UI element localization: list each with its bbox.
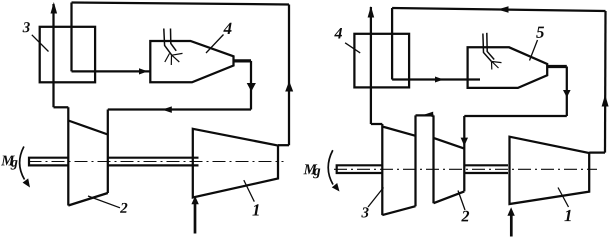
shaft tube left segment xyxy=(29,157,68,167)
label 3 pointer right diagram xyxy=(368,188,384,208)
arrow up on right riser xyxy=(602,95,609,107)
label 4 right diagram xyxy=(334,28,342,39)
wire compressor outlet horizontal right diagram xyxy=(589,151,605,153)
shaft tube right segment xyxy=(108,158,199,166)
arrow down into turbine 2 xyxy=(461,138,468,146)
shaft centerline dash-dot xyxy=(29,161,284,163)
turbine 3 left edge xyxy=(381,124,383,215)
label Mg torque right diagram xyxy=(303,164,317,174)
wire exhaust vertical through heat exchanger xyxy=(52,4,54,107)
compressor 1 body right diagram xyxy=(510,137,590,204)
turbine 3 right edge xyxy=(414,115,416,206)
wire compressor outlet horizontal xyxy=(278,144,289,146)
wire exhaust horizontal from turbine 3 xyxy=(371,123,382,125)
wire duct to combustion chamber 5 xyxy=(392,78,480,80)
turbine 2 left edge right diagram xyxy=(432,115,434,203)
wire top line (compressor outlet to regenerator, left diagram) xyxy=(72,3,290,5)
turbine 3 bottom slant xyxy=(382,206,415,215)
label 5 pointer xyxy=(530,40,538,61)
label 4 xyxy=(223,23,231,34)
label 2 pointer xyxy=(88,196,120,208)
wire exhaust horizontal from turbine xyxy=(54,106,69,108)
arrow down on chamber 5 outlet xyxy=(563,90,571,98)
arrow left on top line xyxy=(498,6,509,12)
arrow up exhaust outlet xyxy=(51,2,58,14)
wire inter-turbine duct horizontal xyxy=(416,114,434,116)
wire right vertical riser from compressor outlet xyxy=(288,5,290,146)
wire turbine inlet horizontal xyxy=(108,108,251,110)
wire chamber 5 outlet down xyxy=(566,67,568,117)
air inlet arrow into compressor 1 xyxy=(194,203,197,234)
label 1 xyxy=(252,204,258,215)
label 4 pointer right diagram xyxy=(345,43,360,53)
combustion chamber 4 body xyxy=(150,41,233,82)
fuel injector of chamber 4 xyxy=(164,29,176,56)
arrow right toward chamber 5 xyxy=(435,77,444,83)
turbine 2 top slant xyxy=(68,121,108,135)
arrow down on chamber outlet duct xyxy=(247,83,256,92)
shaft tube left segment right diagram xyxy=(337,164,383,174)
turbine 2 top slant right diagram xyxy=(434,138,465,149)
combustion chamber 5 body xyxy=(468,47,548,88)
arrow left toward turbine inlet xyxy=(162,106,172,113)
label 1 pointer xyxy=(244,180,255,202)
heat exchanger 3 (regenerator body) xyxy=(40,27,95,83)
wire top line right diagram xyxy=(392,8,605,11)
label Mg torque left diagram xyxy=(1,156,15,166)
shaft tube right segment right diagram xyxy=(464,165,508,173)
injector spray lines xyxy=(165,53,183,65)
turbine 2 left edge xyxy=(67,107,69,205)
wire duct down from top line into heat exchanger xyxy=(70,3,72,72)
shaft centerline dash-dot right diagram xyxy=(334,168,597,170)
label 2 xyxy=(120,203,127,213)
air inlet arrow into compressor 1 right diagram xyxy=(510,215,513,237)
wire duct from chamber to turbine 2 horizontal xyxy=(464,115,567,117)
label 3 xyxy=(23,22,30,32)
label 2 right diagram xyxy=(461,211,469,222)
turbine 3 top slant xyxy=(382,127,415,136)
turbine 2 right edge xyxy=(107,110,109,194)
turbine 2 bottom slant xyxy=(68,193,108,206)
fuel injector of chamber 5 xyxy=(483,33,494,62)
label 4 pointer xyxy=(206,35,224,54)
label 5 xyxy=(536,27,544,38)
wire chamber 5 outlet thick xyxy=(547,65,567,68)
wire duct down from top line into heat exchanger right diagram xyxy=(391,8,393,80)
label 3 pointer xyxy=(32,35,49,52)
torque curved arrow right diagram xyxy=(328,150,333,184)
arrow right into combustion chamber xyxy=(139,68,148,74)
wire chamber outlet down to turbine inlet xyxy=(250,61,252,110)
turbine 2 right edge right diagram xyxy=(463,116,465,191)
wire chamber outlet thick xyxy=(234,59,252,62)
heat exchanger 4 (regenerator body right diagram) xyxy=(354,34,409,88)
arrow up exhaust outlet right diagram xyxy=(368,6,375,18)
label 1 right diagram xyxy=(564,210,570,221)
arrow up on riser xyxy=(285,81,293,92)
label 1 pointer right diagram xyxy=(558,188,569,208)
compressor 1 body xyxy=(193,129,278,198)
turbine 2 bottom slant right diagram xyxy=(434,191,465,203)
wire right vertical riser from compressor outlet xyxy=(604,11,607,153)
torque curved arrow xyxy=(20,147,25,180)
label 3 right diagram xyxy=(361,207,368,217)
arrow left on inter-turbine duct xyxy=(425,112,434,118)
wire exhaust vertical through heat exchanger right diagram xyxy=(370,7,372,124)
injector spray lines chamber 5 xyxy=(492,62,502,70)
wire duct to combustion chamber xyxy=(72,70,151,72)
label 2 pointer right diagram xyxy=(458,191,465,211)
